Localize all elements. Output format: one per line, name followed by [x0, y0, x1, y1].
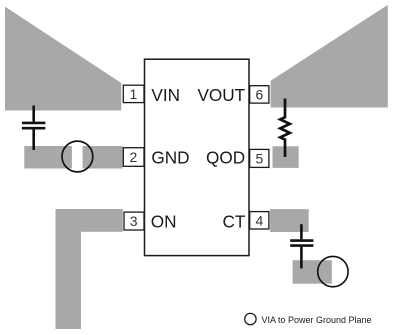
capacitor C2 CT cap	[290, 224, 313, 268]
VOUT copper plane	[271, 5, 388, 108]
pin 5 box	[250, 149, 269, 167]
via V2 to ground plane	[318, 256, 348, 286]
pin 2 box	[123, 148, 144, 167]
svg-text:GND: GND	[151, 147, 189, 167]
svg-text:VOUT: VOUT	[197, 85, 245, 105]
ON trace horizontal arm	[56, 209, 123, 232]
resistor R1 pull-down	[280, 99, 290, 158]
pin 4 box	[250, 212, 269, 229]
pin 3 box	[124, 212, 144, 230]
VIN copper plane	[5, 7, 121, 111]
svg-text:CT: CT	[222, 212, 245, 232]
svg-text:4: 4	[256, 212, 264, 228]
svg-text:1: 1	[130, 86, 138, 102]
svg-text:QOD: QOD	[206, 147, 245, 167]
via V1 to ground plane	[62, 141, 93, 172]
svg-text:ON: ON	[151, 212, 177, 232]
op IC body U1	[145, 59, 250, 255]
svg-text:3: 3	[130, 213, 138, 229]
pin 6 box	[250, 86, 269, 103]
svg-text:VIN: VIN	[151, 85, 180, 105]
capacitor C1 input cap	[22, 106, 46, 151]
CT ground pad	[293, 260, 332, 284]
QOD stub	[273, 146, 299, 168]
svg-text:5: 5	[256, 150, 264, 166]
GND plane strip right segment	[83, 146, 123, 169]
ON trace vertical arm	[56, 209, 82, 329]
CT stub	[270, 209, 309, 232]
svg-text:6: 6	[256, 86, 264, 102]
legend via symbol	[245, 313, 256, 324]
GND plane strip left segment	[24, 146, 72, 169]
svg-text:VIA to Power Ground Plane: VIA to Power Ground Plane	[262, 315, 372, 325]
svg-text:2: 2	[130, 149, 138, 165]
pin 1 box	[123, 85, 144, 102]
